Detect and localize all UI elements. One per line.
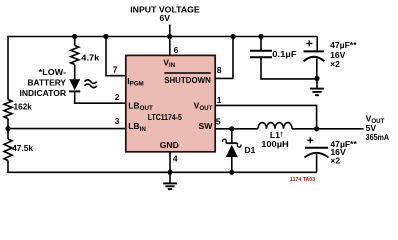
svg-text:162k: 162k — [14, 102, 33, 112]
wire VOUT pin 1 to output node — [215, 105, 316, 128]
svg-text:*LOW-: *LOW- — [39, 67, 66, 77]
ground input cap — [310, 78, 324, 95]
svg-text:×2: ×2 — [330, 59, 340, 69]
svg-text:4.7k: 4.7k — [81, 53, 99, 63]
node VOUT output label — [366, 114, 390, 143]
resistor 4.7k — [71, 46, 79, 65]
node junction dot output — [314, 126, 319, 131]
LED low-battery indicator diode — [69, 79, 97, 91]
svg-text:4: 4 — [173, 153, 178, 163]
svg-text:SW: SW — [199, 121, 214, 131]
svg-text:47.5k: 47.5k — [12, 143, 33, 153]
svg-text:365mA: 365mA — [366, 132, 390, 142]
svg-text:BATTERY: BATTERY — [28, 77, 67, 87]
ground main — [163, 172, 177, 189]
node junction dot 0.1uF / rail — [258, 34, 263, 39]
value label output 47uF 16V x2 — [330, 139, 357, 165]
wire LBIN pin 3 — [8, 128, 126, 130]
value label input 47uF 16V x2 — [330, 40, 357, 69]
wire top rail — [8, 36, 317, 38]
svg-text:7: 7 — [113, 64, 118, 74]
resistor 47.5k — [4, 139, 12, 161]
wire left rail — [7, 36, 9, 173]
node junction dot D1 / bottom rail — [229, 170, 234, 175]
node junction dot pin8 riser / rail — [230, 34, 235, 39]
wire inductor to output — [292, 128, 364, 130]
wire SW pin 5 — [215, 128, 258, 130]
inductor L1 — [258, 123, 292, 129]
node junction dot 4.7k top — [72, 34, 77, 39]
wire input voltage drop to top rail and pin 6 — [169, 25, 171, 56]
svg-text:2: 2 — [115, 92, 120, 102]
node junction dot D1 tap — [229, 126, 234, 131]
svg-text:LTC1174-5: LTC1174-5 — [148, 112, 182, 122]
svg-text:100µH: 100µH — [261, 139, 289, 149]
svg-text:×2: ×2 — [330, 155, 340, 165]
svg-text:1174 TA03: 1174 TA03 — [290, 177, 315, 183]
svg-text:3: 3 — [115, 116, 120, 126]
diode D1 schottky — [223, 129, 241, 173]
resistor 162k — [4, 100, 12, 119]
svg-text:1: 1 — [217, 95, 222, 105]
svg-text:D1: D1 — [244, 145, 255, 155]
node INPUT VOLTAGE label — [130, 4, 200, 22]
wire bottom rail — [8, 171, 317, 173]
label *LOW-BATTERY INDICATOR — [20, 67, 67, 98]
node junction dot left rail LBIN — [5, 126, 10, 131]
svg-text:8: 8 — [217, 65, 222, 75]
wire LED cathode to LBOUT pin 2 — [75, 91, 126, 103]
svg-text:0.1µF: 0.1µF — [272, 49, 296, 59]
node junction dot cap bottoms — [314, 76, 319, 81]
node junction dot input/top rail — [167, 34, 172, 39]
wire 4.7k to LED — [74, 65, 76, 80]
op-amp U1 LTC1174-5 box — [126, 55, 215, 151]
wire 4.7k branch upper — [74, 37, 76, 46]
svg-text:INDICATOR: INDICATOR — [20, 88, 67, 98]
svg-text:6: 6 — [174, 45, 179, 55]
wire GND pin 4 — [169, 152, 171, 173]
svg-text:47µF**: 47µF** — [330, 40, 357, 50]
svg-text:GND: GND — [160, 140, 179, 150]
svg-text:5: 5 — [216, 117, 221, 127]
wire IPGM riser pin 7 — [106, 37, 126, 76]
svg-text:6V: 6V — [159, 13, 170, 23]
capacitor C2 output 47uF — [305, 137, 329, 172]
capacitor C1 0.1uF — [250, 37, 317, 79]
node junction dot pin4 / bottom rail — [167, 170, 172, 175]
pin label SHUTDOWN with overline — [164, 72, 210, 74]
node junction dot IPGM riser — [103, 34, 108, 39]
svg-text:SHUTDOWN: SHUTDOWN — [164, 75, 211, 85]
wire SHUTDOWN pin 8 to top rail — [215, 37, 233, 79]
capacitor C3 input 47uF — [304, 37, 325, 79]
